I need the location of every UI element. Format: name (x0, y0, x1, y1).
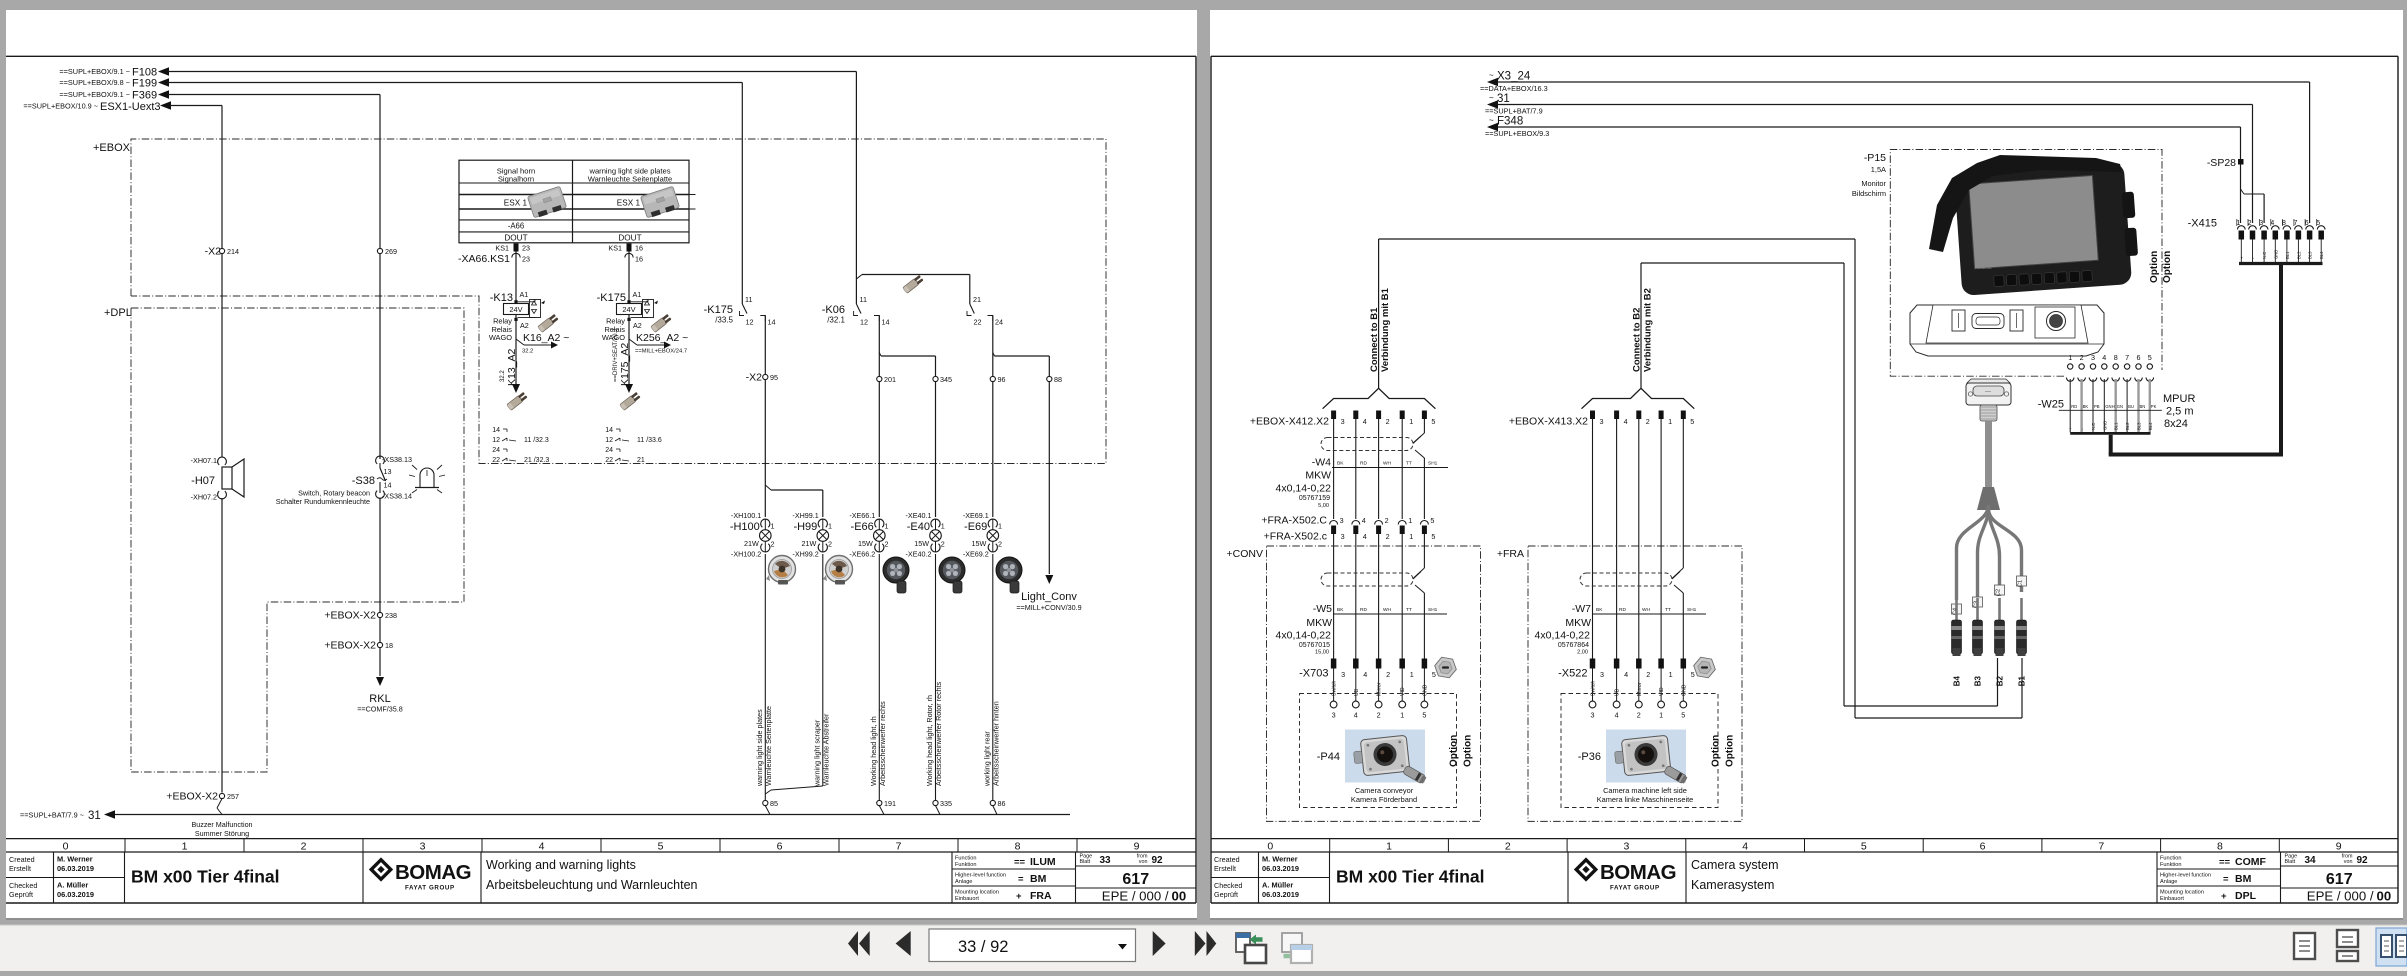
svg-text:N.C: N.C (2262, 252, 2267, 259)
wire F348 to SP28 and X415 pins (1498, 127, 2264, 223)
svg-text:7: 7 (896, 841, 902, 853)
camera P44 connector circles (1330, 701, 1428, 719)
svg-text:2: 2 (2080, 353, 2084, 362)
camera P36 connector circles (1589, 701, 1687, 719)
svg-text:11 /33.6: 11 /33.6 (637, 437, 662, 444)
svg-text:WH: WH (1383, 461, 1392, 467)
svg-text:-XS38.13: -XS38.13 (382, 455, 412, 464)
svg-text:95: 95 (770, 373, 778, 382)
svg-text:BU: BU (2128, 404, 2134, 409)
pin A66.KS1:16 (608, 244, 643, 264)
svg-text:Buzzer Malfunction: Buzzer Malfunction (191, 820, 252, 829)
svg-text:22: 22 (974, 318, 982, 327)
svg-text:==SUPL+EBOX/9.3: ==SUPL+EBOX/9.3 (1485, 129, 1549, 138)
harness cable trunk (1977, 421, 2000, 510)
svg-text:FRA: FRA (1030, 890, 1052, 902)
horn H07 (191, 456, 244, 502)
svg-text:Warnleuchte Seitenplatte: Warnleuchte Seitenplatte (588, 175, 673, 184)
svg-text:working light rear: working light rear (982, 731, 991, 787)
svg-text:==: == (2219, 857, 2231, 868)
cable W4 label (1276, 457, 1448, 510)
svg-text:5: 5 (658, 841, 664, 853)
svg-text:-XH99.1: -XH99.1 (792, 511, 818, 520)
svg-text:2: 2 (1377, 711, 1381, 720)
svg-text:C1: C1 (2018, 580, 2024, 587)
svg-text:-XE40.2: -XE40.2 (906, 550, 932, 559)
monitor photo (1929, 155, 2138, 296)
wire K06 branch to contact 21 (856, 275, 969, 305)
svg-text:-W4: -W4 (1312, 457, 1331, 469)
svg-text:Mounting location: Mounting location (955, 890, 999, 896)
svg-text:32.2: 32.2 (522, 349, 533, 355)
svg-text:BL3: BL3 (2308, 251, 2313, 259)
svg-text:+FRA: +FRA (1497, 548, 1524, 560)
wire K06.14 to X2.201 and X2.345 (879, 316, 935, 377)
svg-text:Kamera linke Maschinenseite: Kamera linke Maschinenseite (1597, 795, 1694, 804)
svg-text:Higher-level function: Higher-level function (955, 873, 1006, 879)
svg-text:BM: BM (2235, 873, 2252, 885)
svg-text:4: 4 (1363, 532, 1367, 541)
svg-text:85: 85 (770, 799, 778, 808)
ferrule below K175 arrow (620, 392, 641, 411)
svg-text:5: 5 (2148, 353, 2152, 362)
svg-text:==SUPL+BAT/7.9: ==SUPL+BAT/7.9 (1485, 107, 1543, 116)
svg-text:-X522: -X522 (1558, 668, 1587, 680)
wire 31 to X415.2 (1498, 105, 2253, 224)
svg-text:1: 1 (1668, 417, 1672, 426)
svg-text:96: 96 (998, 375, 1006, 384)
net RKL label (357, 693, 403, 714)
svg-text:TT: TT (1406, 607, 1412, 613)
toolbar scrolling view icon (2337, 930, 2358, 961)
svg-text:14: 14 (492, 427, 500, 434)
X415 wires to bus (2239, 240, 2324, 264)
svg-text:~: ~ (1489, 94, 1494, 103)
svg-text:Working and warning lights: Working and warning lights (486, 858, 636, 872)
toolbar next view button (1282, 933, 1312, 963)
lamp E66 (849, 511, 888, 559)
svg-text:4: 4 (1742, 841, 1748, 853)
svg-text:+EBOX-X2: +EBOX-X2 (166, 791, 218, 803)
svg-text:/33.5: /33.5 (715, 316, 733, 325)
svg-text:Created: Created (1214, 855, 1240, 864)
svg-text:UB: UB (1615, 688, 1621, 696)
svg-text:PK: PK (2151, 404, 2157, 409)
net 31 feed label right page (1485, 93, 1543, 116)
beacon lamp symbol (409, 465, 445, 493)
svg-text:Light_Conv: Light_Conv (1021, 591, 1077, 603)
toolbar two page view icon selected (2376, 928, 2407, 966)
svg-text:Arbeitsscheinwerfer hinten: Arbeitsscheinwerfer hinten (991, 701, 1000, 786)
svg-text:Option: Option (2162, 251, 2173, 283)
svg-text:15,00: 15,00 (1315, 650, 1329, 656)
svg-text:DOUT: DOUT (504, 234, 527, 243)
svg-text:ESX 1: ESX 1 (617, 199, 641, 208)
net F199 feed label (59, 78, 169, 90)
svg-text:BK: BK (1596, 607, 1603, 613)
svg-text:B4: B4 (1953, 675, 1962, 686)
camera P36 option box (1561, 694, 1718, 808)
svg-text:COMF: COMF (2235, 856, 2266, 868)
svg-text:2: 2 (1386, 417, 1390, 426)
svg-text:1: 1 (885, 522, 889, 531)
svg-text:1: 1 (828, 522, 832, 531)
svg-text:5: 5 (1430, 516, 1434, 525)
svg-text:1: 1 (1386, 841, 1392, 853)
terminal X2:88 (1047, 375, 1062, 384)
wire F199 to K175.11 (168, 83, 742, 305)
svg-text:SH1: SH1 (1687, 607, 1697, 613)
svg-text:8: 8 (2114, 353, 2118, 362)
svg-text:6: 6 (2137, 353, 2141, 362)
svg-text:32.2: 32.2 (500, 370, 506, 382)
svg-text:86: 86 (998, 799, 1006, 808)
svg-text:1: 1 (1409, 532, 1413, 541)
wire X2.88 to Light_Conv arrow (1045, 382, 1053, 584)
svg-text:21 /32.3: 21 /32.3 (524, 457, 549, 464)
svg-text:3: 3 (1600, 417, 1604, 426)
left page title block (6, 839, 1196, 904)
svg-text:FAYAT GROUP: FAYAT GROUP (1610, 885, 1660, 892)
wire lamp H99 down joining 85 with function text (765, 554, 830, 794)
svg-text:Option: Option (1449, 735, 1460, 767)
svg-text:15W: 15W (914, 539, 929, 548)
svg-text:Arbeitsscheinwerfer Rotor rech: Arbeitsscheinwerfer Rotor rechts (934, 681, 943, 786)
svg-text:GND: GND (2102, 421, 2107, 430)
svg-text:-X2: -X2 (205, 246, 222, 258)
svg-text:RD: RD (2071, 404, 2077, 409)
svg-text:214: 214 (227, 247, 239, 256)
connector X703 pins (1299, 659, 1436, 680)
svg-text:-K06: -K06 (822, 304, 845, 316)
svg-text:Option: Option (1463, 735, 1474, 767)
svg-text:MKW: MKW (1306, 617, 1332, 629)
terminal X2:345 (933, 375, 952, 384)
svg-text:RKL: RKL (369, 693, 390, 705)
svg-text:+EBOX-X413.X2: +EBOX-X413.X2 (1509, 416, 1588, 428)
wire X2.345 to lamp E40 (935, 382, 937, 517)
svg-text:-XE66.1: -XE66.1 (849, 511, 875, 520)
option label P44 (1449, 735, 1474, 767)
lamp E66 photo (883, 557, 909, 593)
svg-text:05767015: 05767015 (1299, 642, 1330, 649)
terminal X2:95 (746, 372, 778, 384)
svg-text:+FRA-X502.C: +FRA-X502.C (1261, 515, 1327, 527)
svg-text:MPUR: MPUR (2163, 393, 2195, 405)
svg-text:KS1: KS1 (608, 244, 622, 253)
svg-text:SH1: SH1 (1428, 607, 1438, 613)
connector W25 monitor side pins (2066, 353, 2153, 381)
net X3_24 feed label (1480, 71, 1548, 94)
wire X2.269 to S38 (379, 254, 381, 459)
svg-text:warning light side plates: warning light side plates (755, 709, 764, 787)
svg-text:==DRIV+SEAT/20.3: ==DRIV+SEAT/20.3 (613, 328, 619, 382)
option label P36 (1711, 735, 1736, 767)
svg-text:6: 6 (777, 841, 783, 853)
svg-text:FAYAT GROUP: FAYAT GROUP (405, 885, 455, 892)
ESX controller table A66 (459, 160, 696, 243)
svg-text:5: 5 (1431, 417, 1435, 426)
svg-text:Monitor: Monitor (1861, 179, 1886, 188)
svg-text:-XA66.KS1: -XA66.KS1 (458, 253, 510, 265)
svg-text:11: 11 (745, 295, 752, 304)
svg-text:von: von (1139, 859, 1148, 865)
svg-text:=: = (1018, 874, 1024, 885)
svg-text:-SP28: -SP28 (2207, 157, 2236, 169)
svg-text:24: 24 (995, 318, 1003, 327)
wire X2.214 to H07 (221, 254, 223, 457)
lamp H100 (730, 511, 775, 559)
svg-text:-A66: -A66 (508, 222, 524, 231)
wires X522 to camera P36 (1593, 669, 1684, 702)
connector label -XA66.KS1 (458, 253, 510, 265)
svg-text:TT: TT (1406, 461, 1412, 467)
connector EBOX-X413.X2 pins (1509, 411, 1694, 428)
monitor connector plug drawing (1966, 379, 2011, 421)
svg-text:A1: A1 (633, 290, 642, 299)
svg-text:+: + (1016, 891, 1022, 902)
svg-text:-H07: -H07 (191, 475, 215, 487)
svg-text:8: 8 (1015, 841, 1021, 853)
svg-text:+EBOX-X412.X2: +EBOX-X412.X2 (1250, 416, 1329, 428)
svg-text:4: 4 (1624, 417, 1628, 426)
svg-text:269: 269 (385, 247, 397, 256)
svg-text:2: 2 (1386, 532, 1390, 541)
svg-text:05767159: 05767159 (1299, 495, 1330, 502)
wire K06.24 to X2.96 and X2.88 (993, 316, 1050, 377)
svg-text:2: 2 (998, 540, 1002, 549)
svg-text:6: 6 (1980, 841, 1986, 853)
svg-text:-P15: -P15 (1864, 152, 1886, 164)
wires X502 to W5 shield (1334, 534, 1425, 659)
svg-text:Checked: Checked (1214, 881, 1242, 890)
svg-text:WAGO: WAGO (489, 333, 512, 342)
svg-text:-P36: -P36 (1578, 751, 1601, 763)
svg-text:EPE / 000 /: EPE / 000 / (1102, 889, 1169, 904)
svg-text:1,5A: 1,5A (1871, 165, 1886, 174)
svg-text:Kamerasystem: Kamerasystem (1691, 878, 1774, 892)
svg-text:88: 88 (1054, 375, 1062, 384)
wire KS1.23 to K13.A1 (515, 252, 517, 302)
svg-text:5: 5 (1431, 532, 1435, 541)
svg-text:7: 7 (2125, 353, 2129, 362)
relay K13 coil (489, 290, 570, 393)
svg-text:Funktion: Funktion (955, 862, 976, 868)
svg-text:==DATA+EBOX/16.3: ==DATA+EBOX/16.3 (1480, 84, 1548, 93)
svg-text:Working head light, rh: Working head light, rh (869, 716, 878, 786)
svg-text:Created: Created (9, 855, 35, 864)
ferrule on K256_A2 branch (651, 314, 672, 333)
svg-text:Kamera Förderband: Kamera Förderband (1351, 795, 1417, 804)
svg-text:WH: WH (1383, 607, 1392, 613)
svg-text:-P44: -P44 (1317, 751, 1340, 763)
svg-text:3: 3 (1591, 711, 1595, 720)
lamp H99 photo (823, 556, 853, 585)
svg-text:SH1: SH1 (1428, 461, 1438, 467)
svg-text:Function: Function (2160, 856, 2181, 862)
svg-text:617: 617 (1122, 871, 1149, 888)
lamp E40 (906, 511, 945, 559)
wire F108 to K06.11 (168, 72, 856, 305)
svg-text:==MILL+CONV/30.9: ==MILL+CONV/30.9 (1016, 603, 1081, 612)
svg-text:4: 4 (1363, 417, 1367, 426)
terminal EBOX-X2:238 (324, 610, 397, 622)
connector FRA-X502.C (1261, 515, 1434, 527)
svg-text:2: 2 (1386, 670, 1390, 679)
svg-text:von: von (2344, 859, 2353, 865)
svg-text:MKW: MKW (1565, 617, 1591, 629)
svg-text:BL4: BL4 (2319, 251, 2324, 259)
svg-text:14: 14 (605, 427, 613, 434)
terminal EBOX-X2:85 (763, 799, 778, 808)
wire 31 bus (115, 799, 1070, 815)
wire lamp E69 to terminal 86 with function text (982, 554, 1000, 801)
wire S38 to EBOX-X2 terminals (379, 498, 381, 613)
svg-text:-K175: -K175 (704, 304, 733, 316)
contact K06 /32.1 (822, 295, 1003, 327)
svg-text:23: 23 (522, 255, 530, 264)
svg-text:BK: BK (1337, 607, 1344, 613)
monitor rear view drawing (1910, 305, 2104, 356)
cable W7 label (1535, 603, 1706, 656)
svg-text:3: 3 (420, 841, 426, 853)
svg-text:BM x00 Tier 4final: BM x00 Tier 4final (131, 867, 280, 887)
harness connectors B4 B3 B2 B1 (1952, 598, 2027, 686)
svg-text:X3_24: X3_24 (1497, 71, 1531, 83)
wire F369 to X2.269 (168, 95, 380, 249)
net ESX1-Uext3 feed label (23, 101, 171, 113)
location box +FRA (1497, 546, 1742, 821)
svg-text:14: 14 (768, 318, 776, 327)
svg-text:16: 16 (635, 255, 643, 264)
splice SP28 (2207, 157, 2244, 169)
contact table K175 (605, 427, 662, 464)
svg-text:B1: B1 (2018, 675, 2027, 686)
svg-text:3: 3 (1624, 841, 1630, 853)
svg-text:~: ~ (1489, 71, 1494, 80)
wires X703 to camera P44 (1334, 669, 1425, 702)
svg-text:1: 1 (1659, 711, 1663, 720)
svg-text:M. Werner: M. Werner (57, 855, 93, 864)
wire KS1.16 to K175.A1 (628, 252, 630, 302)
svg-text:-XH100.2: -XH100.2 (731, 550, 761, 559)
svg-text:ESX1-Uext3: ESX1-Uext3 (100, 101, 161, 113)
wire EBOX-X2.238 to 18 (379, 618, 381, 642)
terminal EBOX-X2:86 (990, 799, 1005, 808)
connector FRA-X502.c (1264, 526, 1436, 543)
svg-text:==SUPL+EBOX/10.9 ~: ==SUPL+EBOX/10.9 ~ (23, 102, 98, 111)
svg-text:Geprüft: Geprüft (1214, 890, 1238, 899)
location box +EBOX (93, 139, 1106, 464)
X703 signal names (1332, 681, 1429, 696)
svg-text:Function: Function (955, 856, 976, 862)
svg-text:617: 617 (2326, 871, 2353, 888)
svg-text:Option: Option (1725, 735, 1736, 767)
svg-text:4: 4 (1363, 670, 1367, 679)
svg-text:3: 3 (2091, 353, 2095, 362)
terminal EBOX-X2:18 (324, 640, 393, 652)
svg-text:Einbauort: Einbauort (2160, 896, 2184, 902)
svg-text:+: + (2221, 891, 2227, 902)
net 31 bus label (20, 810, 115, 822)
svg-text:-XH99.2: -XH99.2 (792, 550, 818, 559)
svg-text:2: 2 (1385, 516, 1389, 525)
svg-text:2: 2 (1637, 711, 1641, 720)
svg-text:24: 24 (605, 447, 613, 454)
svg-text:Bildschirm: Bildschirm (1852, 189, 1886, 198)
svg-text:0: 0 (1267, 841, 1273, 853)
svg-text:Option: Option (2149, 251, 2160, 283)
lamp H99 (792, 511, 832, 559)
connector brace X412 (1323, 388, 1436, 408)
svg-text:3: 3 (1341, 532, 1345, 541)
camera P36 photo (1578, 730, 1688, 785)
svg-text:1: 1 (771, 522, 775, 531)
svg-text:14: 14 (384, 481, 392, 490)
svg-text:5: 5 (1422, 711, 1426, 720)
net F348 feed label (1485, 116, 1549, 139)
svg-text:-X415: -X415 (2188, 218, 2217, 230)
terminal X2:96 (990, 375, 1005, 384)
svg-text:==SUPL+EBOX/9.1 ~: ==SUPL+EBOX/9.1 ~ (59, 90, 130, 99)
wires X412 pins to shield W4 (1334, 419, 1425, 519)
svg-text:21: 21 (973, 295, 981, 304)
svg-text:00: 00 (2377, 889, 2392, 904)
ferrule on K16_A2 branch (538, 314, 559, 333)
svg-text:11 /32.3: 11 /32.3 (524, 437, 549, 444)
X522 signal names (1591, 681, 1688, 696)
svg-text:12: 12 (746, 318, 754, 327)
svg-text:-E40: -E40 (907, 521, 930, 533)
svg-text:5: 5 (1861, 841, 1867, 853)
svg-text:Checked: Checked (9, 881, 37, 890)
wire to RKL arrow (376, 648, 384, 686)
svg-text:BL2: BL2 (2296, 251, 2301, 259)
svg-text:2: 2 (1646, 670, 1650, 679)
svg-text:1: 1 (1669, 670, 1673, 679)
terminal EBOX-X2:335 (933, 799, 952, 808)
svg-text:-XH07.1: -XH07.1 (191, 456, 217, 465)
svg-text:5: 5 (1432, 670, 1436, 679)
svg-text:Connect to B2: Connect to B2 (1632, 308, 1643, 372)
svg-text:~: ~ (1489, 116, 1494, 125)
svg-text:B2: B2 (1996, 675, 2005, 686)
svg-text:1: 1 (1409, 417, 1413, 426)
svg-text:05767864: 05767864 (1558, 642, 1589, 649)
camera P44 photo (1317, 730, 1427, 785)
svg-text:1: 1 (182, 841, 188, 853)
svg-text:2,5 m: 2,5 m (2166, 406, 2194, 418)
svg-text:RD: RD (1360, 607, 1367, 613)
svg-text:TT: TT (1665, 607, 1671, 613)
cable W25 spec MPUR (2163, 393, 2195, 430)
svg-text:Erstellt: Erstellt (9, 864, 31, 873)
svg-text:-XE69.1: -XE69.1 (963, 511, 989, 520)
svg-text:EPE / 000 /: EPE / 000 / (2307, 889, 2374, 904)
svg-text:-H99: -H99 (793, 521, 817, 533)
svg-text:=: = (2223, 874, 2229, 885)
svg-text:2: 2 (301, 841, 307, 853)
svg-text:12: 12 (492, 437, 500, 444)
svg-text:191: 191 (884, 799, 896, 808)
toolbar page number box (929, 929, 1136, 962)
svg-text:2,00: 2,00 (1577, 650, 1588, 656)
svg-text:3: 3 (1341, 670, 1345, 679)
svg-text:PB: PB (2094, 404, 2100, 409)
svg-text:BL2: BL2 (2125, 422, 2130, 430)
svg-text:==MILL+EBOX/24.7: ==MILL+EBOX/24.7 (635, 349, 687, 355)
svg-text:==COMF/35.8: ==COMF/35.8 (357, 705, 403, 714)
